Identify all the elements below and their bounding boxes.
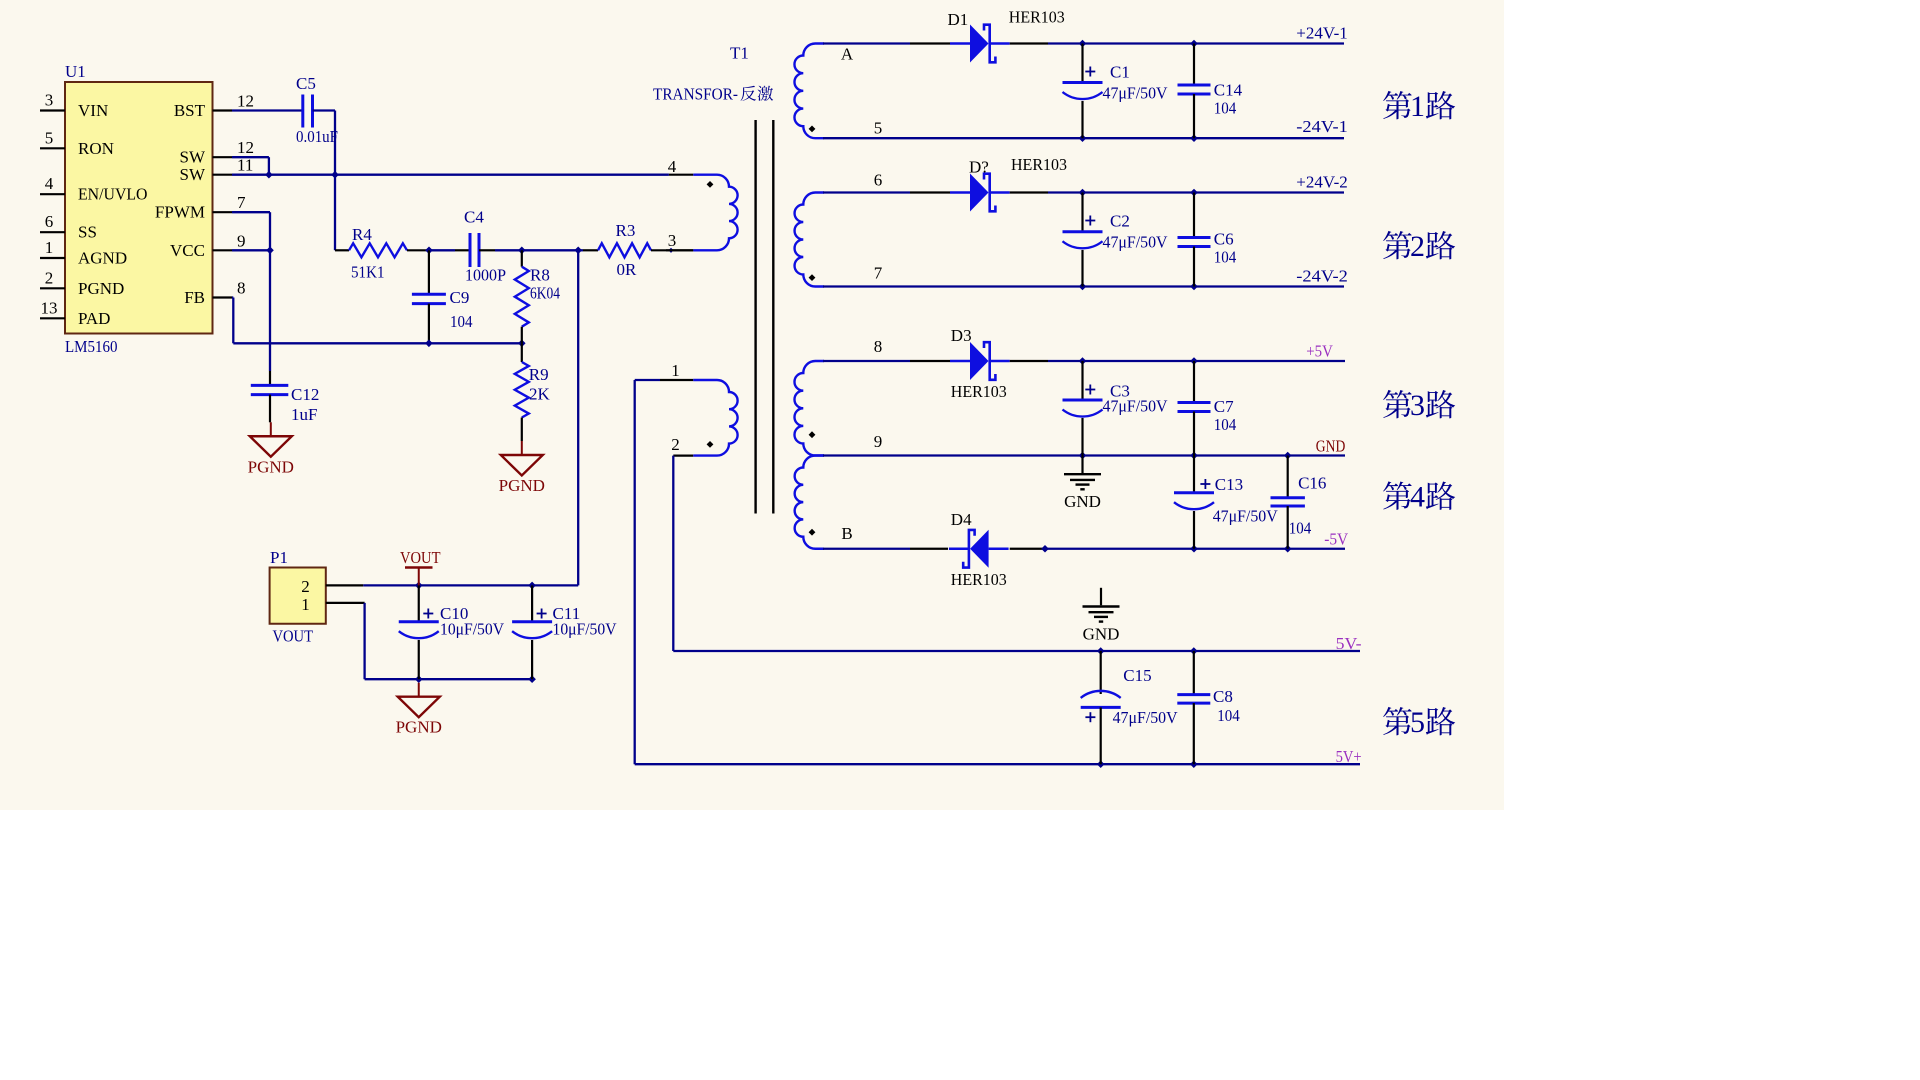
svg-text:2: 2 <box>1410 230 1425 263</box>
svg-text:D?: D? <box>969 158 989 177</box>
svg-text:5: 5 <box>45 128 54 147</box>
svg-text:VCC: VCC <box>170 241 205 260</box>
svg-text:PGND: PGND <box>499 476 545 495</box>
svg-text:C1: C1 <box>1110 63 1130 82</box>
svg-text:10μF/50V: 10μF/50V <box>440 620 505 639</box>
svg-text:VIN: VIN <box>78 101 108 120</box>
svg-text:TRANSFOR-: TRANSFOR- <box>653 85 738 104</box>
svg-text:0.01uF: 0.01uF <box>296 127 338 146</box>
svg-text:8: 8 <box>237 279 246 298</box>
svg-text:GND: GND <box>1316 437 1346 456</box>
svg-text:VOUT: VOUT <box>273 627 314 646</box>
svg-text:104: 104 <box>1214 248 1237 267</box>
svg-text:8: 8 <box>874 337 883 356</box>
svg-text:5V-: 5V- <box>1336 634 1362 653</box>
svg-text:SS: SS <box>78 223 97 242</box>
svg-text:C7: C7 <box>1214 397 1234 416</box>
svg-text:1: 1 <box>1410 90 1425 123</box>
svg-text:LM5160: LM5160 <box>65 337 118 356</box>
svg-text:PGND: PGND <box>78 279 124 298</box>
svg-text:7: 7 <box>237 193 246 212</box>
svg-text:C5: C5 <box>296 74 316 93</box>
svg-text:9: 9 <box>237 231 246 250</box>
svg-text:11: 11 <box>237 156 253 175</box>
svg-text:B: B <box>841 524 852 543</box>
svg-text:GND: GND <box>1064 492 1101 511</box>
svg-text:6: 6 <box>45 212 54 231</box>
svg-text:13: 13 <box>41 298 58 317</box>
svg-text:1000P: 1000P <box>465 266 506 285</box>
svg-text:C6: C6 <box>1214 230 1234 249</box>
svg-text:51K1: 51K1 <box>351 263 385 282</box>
svg-text:4: 4 <box>45 174 54 193</box>
svg-text:-24V-1: -24V-1 <box>1296 117 1348 136</box>
svg-text:47μF/50V: 47μF/50V <box>1103 397 1169 416</box>
svg-text:R3: R3 <box>616 221 636 240</box>
svg-text:C4: C4 <box>464 208 484 227</box>
svg-text:D1: D1 <box>948 10 969 29</box>
svg-text:C13: C13 <box>1215 475 1243 494</box>
svg-text:C12: C12 <box>291 385 319 404</box>
svg-text:HER103: HER103 <box>1009 8 1065 27</box>
svg-text:5: 5 <box>874 119 883 138</box>
svg-text:47μF/50V: 47μF/50V <box>1113 708 1179 727</box>
svg-text:1uF: 1uF <box>291 405 317 424</box>
svg-text:-5V: -5V <box>1324 530 1349 549</box>
svg-text:PGND: PGND <box>248 457 294 476</box>
svg-text:R4: R4 <box>352 225 372 244</box>
svg-text:SW: SW <box>180 165 206 184</box>
svg-text:SW: SW <box>180 148 206 167</box>
svg-text:R8: R8 <box>530 266 550 285</box>
svg-text:12: 12 <box>237 92 254 111</box>
svg-text:PGND: PGND <box>396 718 442 737</box>
svg-text:GND: GND <box>1083 624 1120 643</box>
svg-text:+5V: +5V <box>1306 342 1333 361</box>
svg-text:5: 5 <box>1410 706 1425 739</box>
svg-text:U1: U1 <box>65 62 86 81</box>
svg-text:C16: C16 <box>1298 474 1326 493</box>
svg-text:C15: C15 <box>1123 666 1151 685</box>
svg-text:0R: 0R <box>617 260 638 279</box>
svg-text:EN/UVLO: EN/UVLO <box>78 185 148 204</box>
svg-text:104: 104 <box>1214 99 1237 118</box>
svg-text:A: A <box>841 45 854 64</box>
svg-text:104: 104 <box>1214 415 1237 434</box>
svg-text:D4: D4 <box>951 510 972 529</box>
svg-text:4: 4 <box>1410 481 1425 514</box>
svg-text:104: 104 <box>450 312 473 331</box>
svg-text:2: 2 <box>45 268 54 287</box>
svg-text:104: 104 <box>1217 706 1240 725</box>
svg-text:C8: C8 <box>1213 687 1233 706</box>
svg-text:1: 1 <box>671 361 680 380</box>
svg-text:T1: T1 <box>730 44 749 63</box>
svg-text:FB: FB <box>184 288 205 307</box>
svg-text:12: 12 <box>237 138 254 157</box>
svg-text:2: 2 <box>301 577 310 596</box>
svg-text:3: 3 <box>1410 389 1425 422</box>
svg-text:AGND: AGND <box>78 249 127 268</box>
svg-text:FPWM: FPWM <box>155 203 205 222</box>
svg-text:P1: P1 <box>270 548 288 567</box>
svg-text:HER103: HER103 <box>951 382 1007 401</box>
svg-text:1: 1 <box>45 238 54 257</box>
svg-text:104: 104 <box>1289 519 1312 538</box>
svg-text:C14: C14 <box>1214 81 1243 100</box>
svg-text:C2: C2 <box>1110 212 1130 231</box>
svg-text:2: 2 <box>671 435 680 454</box>
svg-text:HER103: HER103 <box>1011 155 1067 174</box>
svg-text:VOUT: VOUT <box>400 548 441 567</box>
svg-text:1: 1 <box>301 595 310 614</box>
svg-text:6K04: 6K04 <box>530 284 560 303</box>
svg-text:47μF/50V: 47μF/50V <box>1103 233 1169 252</box>
svg-text:4: 4 <box>668 157 677 176</box>
svg-text:HER103: HER103 <box>951 570 1007 589</box>
svg-text:PAD: PAD <box>78 309 110 328</box>
svg-text:10μF/50V: 10μF/50V <box>553 620 618 639</box>
svg-text:+24V-2: +24V-2 <box>1296 173 1348 192</box>
svg-text:5V+: 5V+ <box>1336 747 1362 766</box>
svg-text:BST: BST <box>174 101 206 120</box>
svg-text:R9: R9 <box>529 365 549 384</box>
svg-text:+24V-1: +24V-1 <box>1296 24 1348 43</box>
svg-text:RON: RON <box>78 139 114 158</box>
svg-text:D3: D3 <box>951 326 972 345</box>
svg-text:2K: 2K <box>529 385 551 404</box>
svg-text:9: 9 <box>874 432 883 451</box>
svg-text:-24V-2: -24V-2 <box>1296 267 1348 286</box>
svg-text:47μF/50V: 47μF/50V <box>1103 84 1169 103</box>
svg-text:3: 3 <box>668 231 677 250</box>
svg-text:47μF/50V: 47μF/50V <box>1213 507 1279 526</box>
svg-text:3: 3 <box>45 91 54 110</box>
svg-text:7: 7 <box>874 264 883 283</box>
svg-text:C9: C9 <box>450 288 470 307</box>
svg-text:6: 6 <box>874 171 883 190</box>
